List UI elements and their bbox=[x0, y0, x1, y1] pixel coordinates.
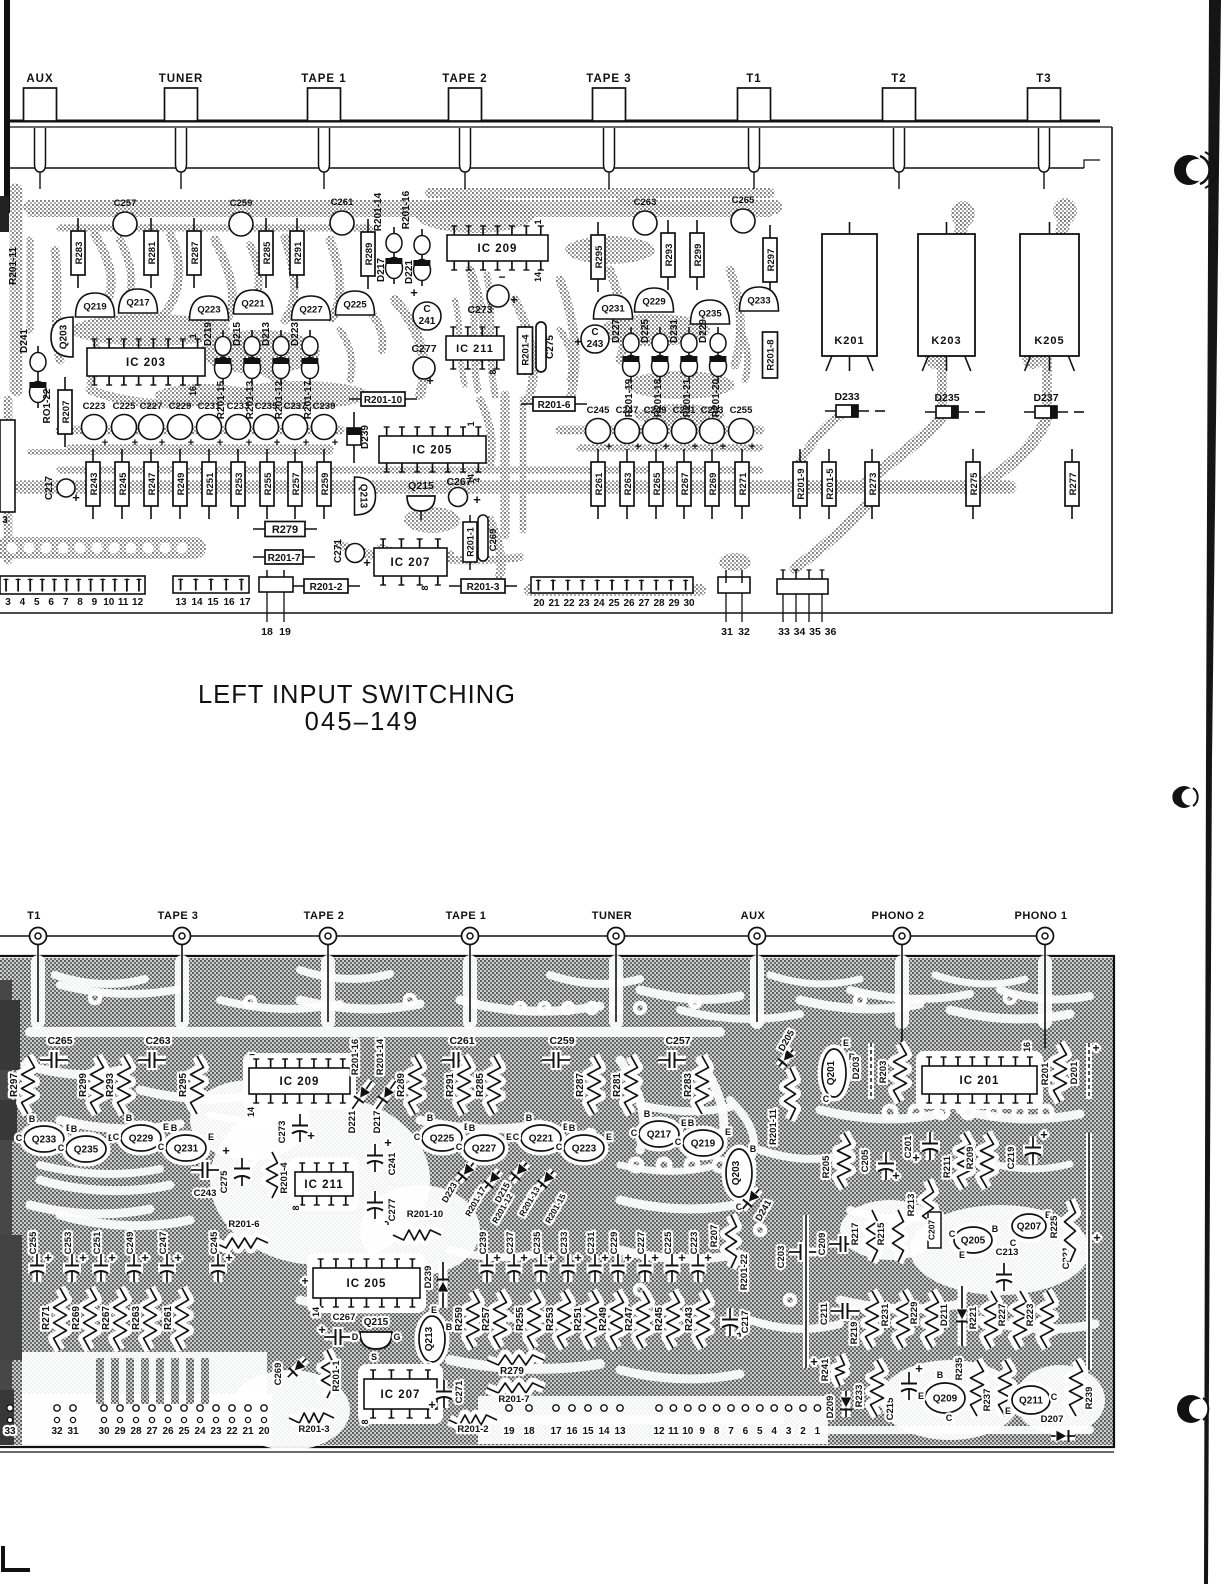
svg-text:8: 8 bbox=[77, 597, 83, 608]
left edge connector fragment bbox=[0, 420, 15, 512]
label R201-4 + resistor bbox=[267, 1152, 278, 1198]
capacitor C205 (bottom board) bbox=[876, 1152, 900, 1183]
svg-text:R201-22: R201-22 bbox=[739, 1254, 750, 1290]
svg-text:C231: C231 bbox=[586, 1231, 597, 1254]
capacitor C269 (bottom board) bbox=[284, 1355, 311, 1382]
resistor R295 (bottom board) bbox=[191, 1056, 204, 1114]
svg-text:−: − bbox=[249, 1050, 255, 1061]
svg-text:28: 28 bbox=[653, 598, 665, 609]
svg-text:C247: C247 bbox=[616, 405, 639, 416]
transistor Q235 (bottom board) bbox=[66, 1136, 106, 1162]
resistor R219 (bottom board) bbox=[866, 1291, 879, 1348]
svg-text:R285: R285 bbox=[475, 1073, 486, 1097]
svg-text:+: + bbox=[246, 437, 252, 449]
svg-text:D221: D221 bbox=[347, 1110, 358, 1133]
svg-text:D217: D217 bbox=[372, 1111, 383, 1134]
svg-text:R201-15: R201-15 bbox=[216, 380, 227, 419]
transistor Q231 bbox=[594, 295, 633, 319]
svg-text:1: 1 bbox=[533, 219, 543, 224]
svg-text:E: E bbox=[1005, 1406, 1011, 1416]
svg-text:B: B bbox=[71, 1124, 78, 1134]
diode D239 (bottom board) bbox=[437, 1262, 449, 1308]
svg-text:Q233: Q233 bbox=[32, 1135, 57, 1146]
diode D223 pair bbox=[301, 330, 318, 384]
svg-text:R253: R253 bbox=[234, 473, 245, 496]
IC U211 bbox=[446, 327, 504, 369]
svg-text:7: 7 bbox=[728, 1426, 734, 1437]
svg-text:32: 32 bbox=[738, 626, 750, 638]
svg-text:+: + bbox=[141, 1250, 149, 1265]
svg-text:30: 30 bbox=[98, 1426, 110, 1437]
svg-text:+: + bbox=[574, 1250, 582, 1265]
svg-text:IC 211: IC 211 bbox=[456, 343, 494, 355]
svg-text:D213: D213 bbox=[261, 322, 272, 346]
svg-text:R201: R201 bbox=[1040, 1062, 1051, 1085]
svg-text:C: C bbox=[423, 304, 430, 315]
svg-text:Q235: Q235 bbox=[698, 309, 722, 320]
svg-text:+: + bbox=[363, 555, 371, 570]
bottom board ground plane bbox=[0, 958, 1114, 1445]
wire connector drop bbox=[327, 944, 329, 1022]
diode D213 (bottom board) bbox=[480, 1167, 505, 1193]
svg-text:R241: R241 bbox=[820, 1358, 831, 1381]
label R201-7 bbox=[253, 550, 315, 564]
svg-text:R243: R243 bbox=[684, 1307, 695, 1331]
capacitor C267 (bottom board) bbox=[318, 1322, 352, 1347]
svg-text:Q231: Q231 bbox=[601, 304, 625, 315]
svg-text:3: 3 bbox=[2, 515, 8, 526]
svg-text:C: C bbox=[631, 1128, 638, 1138]
svg-text:+: + bbox=[574, 334, 582, 349]
svg-text:G: G bbox=[393, 1332, 400, 1342]
svg-text:6: 6 bbox=[48, 597, 54, 608]
resistor R255 (bottom board) bbox=[528, 1291, 541, 1348]
svg-text:D223: D223 bbox=[290, 322, 301, 346]
wire vertical bbox=[803, 1215, 809, 1368]
svg-text:D: D bbox=[352, 1332, 359, 1342]
svg-text:R279: R279 bbox=[272, 524, 298, 536]
label R201-2 bbox=[292, 579, 360, 593]
svg-text:B: B bbox=[171, 1123, 178, 1133]
capacitor C201 (bottom board) bbox=[912, 1132, 940, 1165]
svg-text:Q211: Q211 bbox=[1019, 1396, 1043, 1407]
svg-text:C203: C203 bbox=[776, 1246, 787, 1269]
svg-text:R201-17: R201-17 bbox=[303, 380, 314, 419]
IC U211 (bottom board) bbox=[289, 1157, 359, 1211]
svg-text:R201-16: R201-16 bbox=[401, 190, 412, 229]
capacitor C217 bbox=[57, 479, 75, 497]
diode D209 (bottom board) bbox=[840, 1391, 852, 1417]
resistor R261 bbox=[591, 449, 605, 519]
label R201-9 bbox=[793, 449, 807, 519]
svg-text:B: B bbox=[29, 1114, 36, 1124]
svg-text:E: E bbox=[918, 1391, 924, 1401]
svg-text:C201: C201 bbox=[903, 1135, 914, 1158]
wire connector drop bbox=[469, 944, 471, 1022]
capacitor C211 (bottom board) bbox=[831, 1301, 859, 1321]
svg-text:+: + bbox=[426, 373, 434, 388]
svg-text:D237: D237 bbox=[1033, 392, 1058, 404]
svg-text:+: + bbox=[217, 437, 223, 449]
svg-text:D235: D235 bbox=[934, 392, 959, 404]
svg-text:D241: D241 bbox=[19, 329, 30, 353]
resistor R201-7 (bottom board) bbox=[487, 1383, 544, 1393]
resistor R207 (bottom board) bbox=[726, 1215, 737, 1268]
svg-text:R201-14: R201-14 bbox=[375, 1038, 386, 1075]
svg-text:27: 27 bbox=[146, 1426, 158, 1437]
svg-text:26: 26 bbox=[162, 1426, 174, 1437]
svg-text:8: 8 bbox=[714, 1426, 720, 1437]
diode D231 pair bbox=[680, 327, 697, 382]
svg-text:B: B bbox=[526, 1113, 533, 1123]
svg-text:C: C bbox=[949, 1229, 956, 1239]
svg-text:C275: C275 bbox=[219, 1170, 230, 1193]
resistor R215 (bottom board) bbox=[893, 1210, 904, 1262]
resistor R259 (bottom board) bbox=[467, 1291, 480, 1348]
svg-text:+: + bbox=[720, 441, 726, 453]
svg-text:C225: C225 bbox=[663, 1231, 674, 1254]
label R201-3 bbox=[449, 579, 517, 593]
svg-text:R255: R255 bbox=[263, 472, 274, 495]
svg-text:B: B bbox=[937, 1370, 944, 1380]
resistor R243 (bottom board) bbox=[697, 1291, 710, 1348]
resistor R201-3 (bottom board) bbox=[289, 1413, 334, 1423]
svg-text:C271: C271 bbox=[454, 1380, 465, 1403]
svg-text:R201-13: R201-13 bbox=[245, 380, 256, 419]
svg-text:C249: C249 bbox=[125, 1232, 136, 1255]
wire connector drop bbox=[181, 944, 183, 1022]
svg-text:+: + bbox=[624, 1250, 632, 1265]
svg-text:+: + bbox=[1093, 1230, 1101, 1245]
transistor Q233 (bottom board) bbox=[24, 1126, 64, 1152]
resistor R201 (bottom board) bbox=[1054, 1043, 1067, 1102]
resistor R297 (bottom board) bbox=[22, 1056, 35, 1114]
svg-text:R249: R249 bbox=[176, 473, 187, 496]
svg-text:C269: C269 bbox=[488, 529, 499, 552]
svg-text:D227: D227 bbox=[611, 319, 622, 343]
svg-text:+: + bbox=[606, 441, 612, 453]
svg-text:B: B bbox=[750, 1144, 757, 1154]
svg-text:B: B bbox=[992, 1224, 999, 1234]
svg-text:R211: R211 bbox=[942, 1155, 953, 1178]
svg-text:Q205: Q205 bbox=[961, 1236, 986, 1247]
svg-text:Q219: Q219 bbox=[83, 302, 106, 313]
svg-text:12: 12 bbox=[653, 1426, 665, 1437]
svg-text:C: C bbox=[556, 1142, 563, 1152]
diode D215 (bottom board) bbox=[507, 1159, 532, 1185]
resistor R279 (bottom board) bbox=[487, 1355, 544, 1365]
svg-text:+: + bbox=[44, 1250, 52, 1265]
svg-text:AUX: AUX bbox=[26, 73, 53, 85]
svg-text:R295: R295 bbox=[594, 245, 605, 268]
svg-text:+: + bbox=[473, 492, 481, 507]
page edge dark strip bottom board bbox=[0, 980, 12, 1445]
svg-text:C217: C217 bbox=[44, 476, 55, 500]
svg-text:IC 201: IC 201 bbox=[960, 1075, 1000, 1087]
svg-text:B: B bbox=[126, 1113, 133, 1123]
svg-text:18: 18 bbox=[261, 626, 273, 638]
svg-text:10: 10 bbox=[682, 1426, 694, 1437]
wire connector drop bbox=[756, 944, 758, 1022]
IC U203 bbox=[87, 339, 205, 385]
diode D215 pair bbox=[243, 330, 260, 384]
diode D225 pair bbox=[651, 327, 668, 382]
capacitor C207 (bottom board) bbox=[928, 1212, 941, 1248]
svg-text:+: + bbox=[749, 441, 755, 453]
svg-text:R239: R239 bbox=[1084, 1387, 1095, 1410]
svg-text:C249: C249 bbox=[644, 405, 667, 416]
svg-text:+: + bbox=[159, 437, 165, 449]
svg-text:C229: C229 bbox=[169, 401, 192, 412]
resistor R255 bbox=[260, 449, 274, 519]
capacitor C231 bbox=[197, 401, 222, 440]
resistor R229 (bottom board) bbox=[926, 1291, 939, 1348]
label R201-6 + resistor bbox=[215, 1238, 268, 1248]
svg-text:R249: R249 bbox=[598, 1307, 609, 1331]
svg-text:C277: C277 bbox=[411, 343, 436, 355]
punch mark 1 bbox=[1174, 152, 1216, 188]
svg-text:8: 8 bbox=[360, 1419, 370, 1424]
svg-text:R299: R299 bbox=[693, 244, 704, 267]
svg-text:D231: D231 bbox=[669, 319, 680, 343]
svg-text:R207: R207 bbox=[61, 401, 72, 424]
diode D227 pair bbox=[622, 327, 639, 382]
transistor Q223 bbox=[190, 296, 229, 320]
svg-text:R227: R227 bbox=[997, 1304, 1008, 1327]
svg-text:Q221: Q221 bbox=[241, 299, 265, 310]
transistor Q229 (bottom board) bbox=[121, 1125, 161, 1151]
svg-text:+: + bbox=[663, 441, 669, 453]
svg-text:C: C bbox=[823, 1094, 830, 1104]
svg-text:243: 243 bbox=[587, 339, 604, 350]
svg-text:C211: C211 bbox=[819, 1302, 830, 1325]
svg-text:14: 14 bbox=[533, 272, 543, 282]
svg-text:+: + bbox=[303, 437, 309, 449]
svg-text:+: + bbox=[410, 285, 418, 300]
svg-text:R257: R257 bbox=[291, 473, 302, 496]
svg-text:R201-6: R201-6 bbox=[228, 1219, 259, 1230]
capacitor C269 bbox=[478, 515, 488, 561]
svg-text:C209: C209 bbox=[817, 1233, 828, 1256]
svg-text:R285: R285 bbox=[262, 241, 273, 264]
svg-text:+: + bbox=[915, 1361, 923, 1376]
svg-text:R253: R253 bbox=[545, 1307, 556, 1331]
svg-text:+: + bbox=[174, 1250, 182, 1265]
svg-text:TAPE 1: TAPE 1 bbox=[446, 910, 487, 922]
wire connector drop bbox=[901, 944, 903, 1048]
svg-text:C227: C227 bbox=[140, 401, 163, 412]
svg-text:+: + bbox=[332, 437, 338, 449]
svg-text:C269: C269 bbox=[273, 1363, 284, 1386]
svg-text:+: + bbox=[384, 1135, 392, 1150]
svg-text:R201-11: R201-11 bbox=[8, 247, 19, 285]
svg-text:TAPE 2: TAPE 2 bbox=[304, 910, 345, 922]
svg-text:C229: C229 bbox=[609, 1232, 620, 1255]
connector strip pins 3-12 bbox=[0, 576, 145, 594]
svg-text:C233: C233 bbox=[559, 1232, 570, 1255]
svg-text:R235: R235 bbox=[954, 1357, 965, 1380]
svg-text:C261: C261 bbox=[449, 1035, 474, 1047]
svg-text:R201-1: R201-1 bbox=[466, 527, 476, 557]
svg-text:R201-12: R201-12 bbox=[274, 380, 285, 419]
svg-text:R229: R229 bbox=[909, 1302, 920, 1325]
svg-text:C223: C223 bbox=[83, 401, 106, 412]
svg-text:21: 21 bbox=[242, 1426, 254, 1437]
resistor R217 (bottom board) bbox=[867, 1210, 878, 1262]
relay K201 bbox=[822, 222, 877, 371]
label R201-6 bbox=[521, 397, 587, 411]
svg-text:+: + bbox=[108, 1250, 116, 1265]
svg-text:241: 241 bbox=[419, 316, 436, 327]
svg-text:Q217: Q217 bbox=[647, 1130, 672, 1141]
svg-text:C243: C243 bbox=[194, 1188, 217, 1199]
svg-text:+: + bbox=[188, 437, 194, 449]
IC U207 bbox=[374, 539, 447, 585]
svg-text:+: + bbox=[318, 1322, 326, 1337]
transistor Q221 (bottom board) bbox=[521, 1125, 561, 1151]
svg-text:R263: R263 bbox=[131, 1306, 142, 1330]
svg-text:R281: R281 bbox=[612, 1073, 623, 1097]
resistor R273 bbox=[865, 449, 879, 519]
svg-text:B: B bbox=[427, 1113, 434, 1123]
connector 33-36 bbox=[777, 579, 828, 594]
svg-text:Q225: Q225 bbox=[343, 300, 367, 311]
wire connector drop bbox=[1044, 944, 1046, 1048]
svg-text:TAPE 2: TAPE 2 bbox=[442, 73, 487, 85]
svg-text:C273: C273 bbox=[467, 304, 492, 316]
resistor R257 (bottom board) bbox=[494, 1291, 507, 1348]
transistor Q235 bbox=[691, 300, 730, 324]
resistor R265 bbox=[649, 449, 663, 519]
capacitor C223 bbox=[82, 401, 107, 440]
resistor R201-1 (bottom board) bbox=[322, 1350, 333, 1398]
resistor R211 (bottom board) bbox=[958, 1133, 971, 1188]
transistor Q211 (bottom board) bbox=[1012, 1386, 1050, 1414]
svg-text:Q217: Q217 bbox=[126, 298, 149, 309]
resistor R251 bbox=[202, 449, 216, 519]
svg-text:C227: C227 bbox=[636, 1232, 647, 1255]
resistor R261 (bottom board) bbox=[176, 1288, 189, 1350]
svg-text:20: 20 bbox=[258, 1426, 270, 1437]
svg-text:C205: C205 bbox=[860, 1149, 871, 1172]
svg-text:E: E bbox=[681, 1118, 687, 1128]
svg-text:C: C bbox=[675, 1137, 682, 1147]
svg-text:D219: D219 bbox=[203, 322, 214, 346]
svg-text:C: C bbox=[16, 1133, 23, 1143]
diode D219 (bottom board) bbox=[534, 1167, 559, 1193]
svg-text:+: + bbox=[510, 292, 518, 307]
svg-text:R215: R215 bbox=[876, 1222, 887, 1245]
svg-text:C255: C255 bbox=[28, 1231, 39, 1254]
diode D241 pair bbox=[29, 346, 46, 408]
svg-text:8: 8 bbox=[420, 585, 430, 590]
resistor R209 (bottom board) bbox=[981, 1133, 994, 1188]
svg-text:TAPE 3: TAPE 3 bbox=[158, 910, 199, 922]
wire vertical right bbox=[1086, 1133, 1092, 1370]
svg-text:C253: C253 bbox=[63, 1232, 74, 1255]
svg-text:8: 8 bbox=[488, 369, 498, 374]
capacitor C265 bbox=[731, 195, 755, 233]
svg-text:PHONO 1: PHONO 1 bbox=[1014, 910, 1067, 922]
resistor R269 (bottom board) bbox=[84, 1288, 97, 1350]
svg-text:5: 5 bbox=[34, 597, 40, 608]
svg-text:R201-14: R201-14 bbox=[373, 192, 384, 231]
svg-text:D201: D201 bbox=[1069, 1061, 1080, 1084]
svg-text:Q229: Q229 bbox=[129, 1134, 154, 1145]
svg-text:C267: C267 bbox=[333, 1312, 356, 1323]
relay K205 bbox=[1020, 222, 1079, 371]
svg-text:C: C bbox=[414, 1132, 421, 1142]
svg-text:R269: R269 bbox=[708, 473, 719, 496]
svg-text:R201-7: R201-7 bbox=[498, 1394, 529, 1405]
routing channels (white) bbox=[22, 962, 1105, 1450]
top board trace texture bbox=[5, 190, 1077, 590]
svg-text:R245: R245 bbox=[654, 1307, 665, 1331]
svg-text:Q223: Q223 bbox=[197, 305, 220, 316]
svg-text:20: 20 bbox=[533, 598, 545, 609]
diode D235 bbox=[925, 392, 985, 418]
svg-text:21: 21 bbox=[548, 598, 560, 609]
svg-text:9: 9 bbox=[92, 597, 98, 608]
transistor Q227 bbox=[292, 296, 331, 320]
svg-text:R201-16: R201-16 bbox=[350, 1039, 361, 1075]
top board outline bbox=[8, 120, 1100, 123]
svg-text:E: E bbox=[431, 1305, 437, 1315]
resistor R207 bbox=[58, 377, 72, 447]
resistor R225 (bottom board) bbox=[1065, 1200, 1076, 1262]
capacitor C257 bbox=[113, 198, 137, 236]
svg-text:IC 211: IC 211 bbox=[304, 1179, 343, 1191]
svg-text:1: 1 bbox=[815, 1426, 821, 1437]
IC U209 (bottom board) bbox=[243, 1053, 356, 1109]
svg-text:C: C bbox=[58, 1143, 65, 1153]
pad row numbers (bottom board) bbox=[4, 1405, 820, 1437]
svg-text:Q209: Q209 bbox=[933, 1394, 958, 1405]
svg-text:IC 209: IC 209 bbox=[280, 1076, 320, 1088]
svg-text:C257: C257 bbox=[665, 1035, 690, 1047]
diode D219 pair bbox=[214, 330, 231, 384]
svg-text:T1: T1 bbox=[27, 910, 41, 922]
capacitor C273 bbox=[487, 285, 509, 307]
svg-text:C241: C241 bbox=[387, 1152, 398, 1175]
transistor Q221 bbox=[234, 290, 273, 314]
svg-text:17: 17 bbox=[239, 597, 251, 608]
svg-text:T2: T2 bbox=[891, 73, 906, 85]
svg-text:C: C bbox=[1010, 1238, 1017, 1248]
capacitor C277 (bottom board) bbox=[365, 1191, 392, 1229]
svg-text:14: 14 bbox=[246, 1107, 256, 1117]
svg-text:15: 15 bbox=[582, 1426, 594, 1437]
capacitor C237 bbox=[283, 401, 308, 440]
svg-text:R259: R259 bbox=[454, 1307, 465, 1331]
capacitor C277 bbox=[413, 357, 435, 379]
svg-text:32: 32 bbox=[51, 1426, 63, 1437]
IC U209 bbox=[447, 226, 548, 270]
svg-text:+: + bbox=[1092, 1041, 1099, 1055]
svg-text:C245: C245 bbox=[209, 1231, 220, 1254]
svg-text:R261: R261 bbox=[163, 1306, 174, 1330]
svg-text:+: + bbox=[601, 1250, 609, 1265]
svg-text:D239: D239 bbox=[423, 1266, 434, 1289]
svg-text:R225: R225 bbox=[1049, 1215, 1060, 1238]
svg-text:D215: D215 bbox=[232, 322, 243, 346]
svg-text:E: E bbox=[725, 1127, 731, 1137]
svg-text:D239: D239 bbox=[360, 425, 371, 449]
diode D221 (bottom board) bbox=[347, 1078, 376, 1113]
svg-text:1: 1 bbox=[466, 421, 476, 426]
resistor R297 bbox=[763, 225, 777, 295]
svg-text:31: 31 bbox=[721, 626, 733, 638]
